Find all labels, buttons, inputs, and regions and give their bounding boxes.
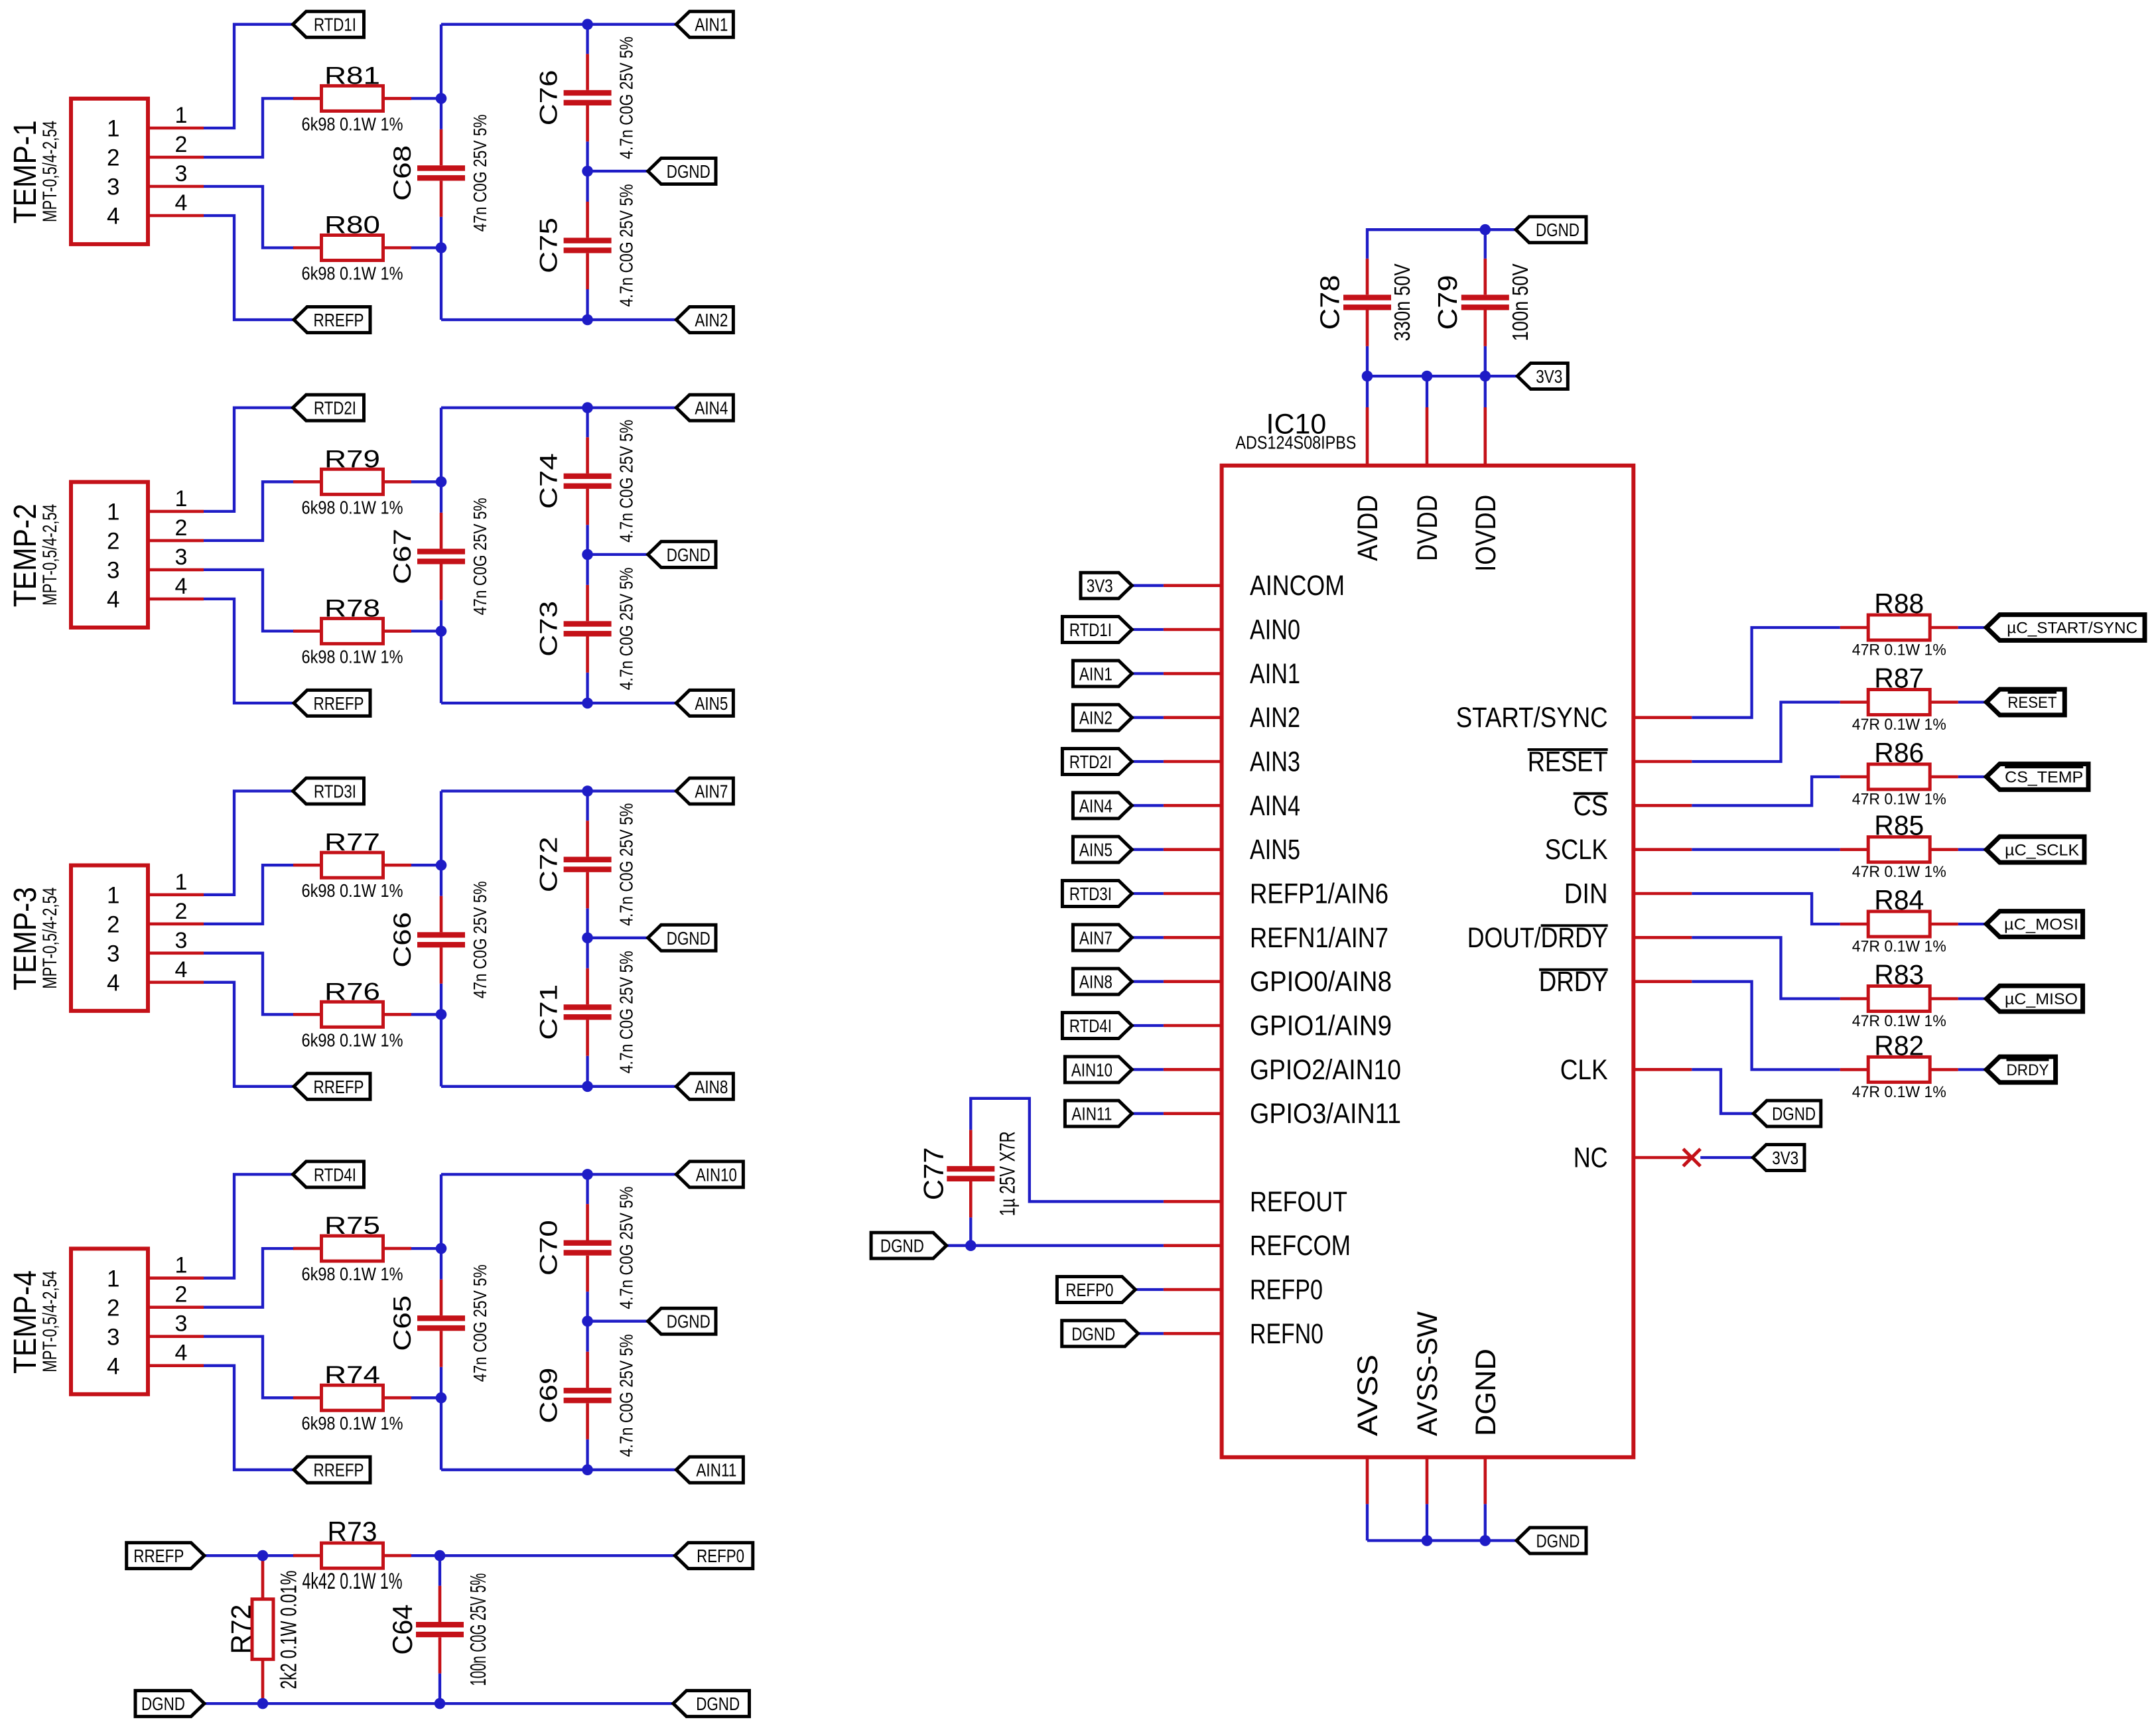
wire AIN1 to pin AIN1 (1132, 672, 1164, 675)
wire R out bottom (411, 1396, 441, 1399)
svg-text:C70: C70 (535, 1220, 563, 1276)
svg-text:CLK: CLK (1560, 1055, 1608, 1086)
power flag 3V3 (1753, 1144, 1804, 1170)
wire pin4 to RREFP flag (204, 599, 294, 703)
wire node column top (440, 1174, 442, 1248)
svg-text:C64: C64 (387, 1605, 418, 1655)
wire pin2 to R (204, 482, 294, 541)
svg-text:TEMP-4: TEMP-4 (8, 1270, 43, 1374)
svg-text:47R 0.1W 1%: 47R 0.1W 1% (1852, 791, 1946, 809)
svg-text:C68: C68 (389, 145, 416, 201)
IC10 pin AIN5 stub (1164, 848, 1222, 851)
svg-text:DRDY: DRDY (1539, 966, 1608, 998)
net flag AIN10 (676, 1162, 743, 1187)
wire DGND bus to flag (1485, 228, 1516, 231)
svg-text:R86: R86 (1874, 737, 1924, 768)
wire cap column bottom (586, 673, 588, 703)
wire DGND row (588, 1320, 648, 1323)
wire R out bottom (411, 246, 441, 249)
IC10 pin AINCOM stub (1164, 584, 1222, 587)
TEMP-1 pin 3 stub (148, 185, 204, 188)
svg-text:2: 2 (175, 899, 188, 924)
svg-text:3: 3 (107, 558, 119, 584)
ground flag DGND (673, 1691, 750, 1717)
svg-text:DOUT/DRDY: DOUT/DRDY (1467, 923, 1608, 954)
junction (1480, 1535, 1491, 1546)
capacitor C75 (564, 202, 612, 289)
svg-text:DGND: DGND (667, 161, 710, 182)
svg-text:AIN8: AIN8 (695, 1077, 728, 1097)
net flag RTD2I (293, 395, 364, 421)
capacitor C72 (564, 821, 612, 908)
svg-text:47R 0.1W 1%: 47R 0.1W 1% (1852, 716, 1946, 734)
svg-text:C65: C65 (389, 1296, 416, 1351)
wire RTD3I to pin REFP1/AIN6 (1132, 892, 1164, 895)
svg-text:4k42 0.1W 1%: 4k42 0.1W 1% (303, 1569, 403, 1594)
svg-text:AVDD: AVDD (1353, 495, 1384, 561)
wire node column top (440, 25, 442, 99)
svg-text:4: 4 (175, 1341, 188, 1366)
svg-text:3: 3 (107, 174, 119, 200)
wire pin to R83 (1692, 937, 1840, 998)
svg-text:4.7n C0G 25V 5%: 4.7n C0G 25V 5% (616, 36, 637, 159)
wire cap column bottom (586, 1439, 588, 1470)
junction (582, 1315, 593, 1327)
svg-text:6k98 0.1W 1%: 6k98 0.1W 1% (302, 113, 403, 134)
wire C64 top (438, 1556, 441, 1586)
wire R88 to flag µC_START/SYNC (1958, 626, 1987, 629)
svg-text:6k98 0.1W 1%: 6k98 0.1W 1% (302, 1413, 403, 1433)
svg-text:AIN7: AIN7 (1079, 927, 1112, 948)
IC10 pin DVDD stub (1426, 407, 1429, 466)
wire cap column below DGND (586, 1321, 588, 1352)
svg-text:6k98 0.1W 1%: 6k98 0.1W 1% (302, 880, 403, 901)
junction (582, 1464, 593, 1475)
svg-text:6k98 0.1W 1%: 6k98 0.1W 1% (302, 263, 403, 284)
svg-text:RTD4I: RTD4I (314, 1164, 356, 1185)
svg-text:3: 3 (175, 928, 188, 953)
wire bottom DGND bus (1367, 1539, 1516, 1542)
IC10 pin GPIO3/AIN11 stub (1164, 1112, 1222, 1115)
net flag RREFP (294, 1457, 370, 1483)
junction (582, 314, 593, 326)
net flag REFP0 (1057, 1276, 1135, 1302)
ground flag DGND (871, 1232, 947, 1258)
junction (582, 19, 593, 30)
wire node column top (440, 408, 442, 482)
net flag CS_TEMP (1986, 764, 2088, 790)
svg-text:AIN4: AIN4 (695, 398, 728, 419)
svg-text:AIN5: AIN5 (1079, 840, 1112, 860)
svg-text:AIN2: AIN2 (1079, 708, 1112, 728)
svg-text:MPT-0,5/4-2,54: MPT-0,5/4-2,54 (39, 1271, 61, 1372)
wire DGND row (588, 553, 648, 556)
svg-text:REFP0: REFP0 (1250, 1275, 1323, 1306)
wire node column mid lower (440, 1367, 442, 1398)
wire pin4 to RREFP flag (204, 216, 294, 320)
wire AIN7 to pin REFN1/AIN7 (1132, 936, 1164, 939)
net flag DRDY (1986, 1057, 2055, 1083)
wire node column mid upper (440, 482, 442, 513)
power flag 3V3 (1517, 364, 1568, 389)
TEMP-1 pin 1 stub (148, 127, 204, 130)
wire C79 top (1484, 230, 1487, 259)
svg-text:47n C0G 25V 5%: 47n C0G 25V 5% (470, 114, 490, 232)
wire R73 to REFP0 (411, 1554, 675, 1557)
wire 3V3 bus (1367, 375, 1517, 377)
resistor R83 (1840, 986, 1958, 1012)
svg-text:AINCOM: AINCOM (1250, 570, 1345, 602)
wire C77 bottom to DGND row (969, 1217, 972, 1245)
net flag RTD2I (1062, 749, 1132, 775)
net flag AIN8 (1073, 968, 1132, 994)
svg-text:100n 50V: 100n 50V (1508, 263, 1532, 341)
TEMP-4 pin 2 stub (148, 1305, 204, 1309)
svg-text:3V3: 3V3 (1087, 576, 1113, 596)
svg-text:3V3: 3V3 (1772, 1148, 1798, 1168)
wire node column bottom (440, 1014, 442, 1087)
svg-text:3: 3 (175, 545, 188, 570)
junction (1422, 1535, 1433, 1546)
wire DGND bus bottom (204, 1702, 673, 1705)
net flag REFP0 (675, 1543, 752, 1569)
resistor R82 (1840, 1057, 1958, 1082)
svg-text:1: 1 (107, 500, 119, 525)
svg-text:AIN8: AIN8 (1079, 972, 1112, 992)
svg-text:RREFP: RREFP (314, 1460, 364, 1481)
svg-text:1: 1 (175, 870, 188, 895)
wire pin1 to RTD flag (204, 25, 293, 128)
svg-text:C72: C72 (535, 836, 563, 892)
resistor R88 (1840, 615, 1958, 640)
capacitor C64 (416, 1586, 464, 1674)
svg-text:DGND: DGND (667, 1311, 710, 1332)
wire cap column below DGND (586, 171, 588, 202)
wire DGND flag to REFN0 pin (1138, 1332, 1164, 1335)
resistor R87 (1840, 690, 1958, 715)
wire AIN11 to pin GPIO3/AIN11 (1132, 1112, 1164, 1115)
IC10 pin REFP0 stub (1164, 1288, 1222, 1292)
svg-text:DIN: DIN (1564, 879, 1608, 910)
svg-text:REFP0: REFP0 (697, 1546, 744, 1566)
svg-text:DGND: DGND (696, 1694, 740, 1714)
wire C79 bottom (1484, 346, 1487, 376)
IC10 pin SCLK stub (1633, 848, 1692, 851)
svg-text:C78: C78 (1314, 275, 1345, 330)
ground flag DGND (1516, 217, 1586, 243)
wire RTD4I to pin GPIO1/AIN9 (1132, 1024, 1164, 1027)
wire node column mid lower (440, 984, 442, 1015)
capacitor C74 (564, 437, 612, 525)
TEMP-1 pin 4 stub (148, 214, 204, 218)
wire SCLK to R85 (1692, 848, 1840, 851)
resistor R72 (252, 1556, 273, 1703)
svg-text:AIN1: AIN1 (695, 15, 728, 35)
svg-text:1: 1 (175, 103, 188, 128)
svg-text:2: 2 (175, 132, 188, 157)
svg-text:C76: C76 (535, 70, 563, 125)
svg-text:R78: R78 (324, 594, 380, 622)
junction (257, 1550, 269, 1562)
IC10 pin DGND stub (1484, 1457, 1487, 1504)
junction (436, 1392, 447, 1404)
svg-text:C75: C75 (535, 218, 563, 273)
wire AIN10 to pin GPIO2/AIN10 (1132, 1068, 1164, 1071)
TEMP-2 pin 1 stub (148, 510, 204, 513)
svg-text:R73: R73 (328, 1516, 377, 1547)
svg-text:C66: C66 (389, 912, 416, 968)
ground flag DGND (135, 1691, 204, 1717)
junction (1362, 371, 1373, 382)
wire cap column top (586, 25, 588, 54)
svg-text:4: 4 (107, 204, 119, 230)
wire R84 to flag µC_MOSI (1958, 923, 1987, 925)
svg-text:R74: R74 (324, 1361, 380, 1388)
wire top AIN row (441, 23, 676, 26)
net flag RTD3I (293, 778, 364, 804)
ground flag DGND (648, 1308, 716, 1334)
IC10 pin AVDD stub (1366, 407, 1369, 466)
net flag AIN11 (676, 1457, 743, 1483)
net flag RTD4I (293, 1162, 364, 1187)
wire bottom AIN row (441, 318, 676, 321)
IC10 pin REFCOM stub (1164, 1244, 1222, 1247)
svg-text:IOVDD: IOVDD (1471, 495, 1502, 572)
IC10 pin AIN4 stub (1164, 804, 1222, 807)
svg-text:100n C0G 25V 5%: 100n C0G 25V 5% (466, 1573, 490, 1686)
net flag RTD3I (1062, 881, 1132, 907)
wire bottom AIN row (441, 1085, 676, 1088)
ground flag DGND (1753, 1100, 1821, 1126)
IC10 pin AIN1 stub (1164, 672, 1222, 675)
TEMP-3 pin 4 stub (148, 981, 204, 984)
svg-text:AIN2: AIN2 (695, 310, 728, 330)
svg-text:GPIO2/AIN10: GPIO2/AIN10 (1250, 1055, 1401, 1086)
svg-text:1: 1 (107, 1266, 119, 1292)
TEMP-4 pin 1 stub (148, 1276, 204, 1280)
net flag AIN7 (1073, 925, 1132, 951)
svg-text:ADS124S08IPBS: ADS124S08IPBS (1235, 432, 1356, 452)
svg-text:47R 0.1W 1%: 47R 0.1W 1% (1852, 641, 1946, 659)
wire R out top (411, 480, 441, 483)
net flag µC_MOSI (1986, 911, 2082, 937)
svg-text:DGND: DGND (667, 928, 710, 949)
overline DRDY part of DOUT/DRDY (1541, 924, 1608, 927)
resistor R85 (1840, 837, 1958, 862)
wire AVSS-SW to DGND bus (1426, 1504, 1428, 1540)
no-connect X on NC (1683, 1149, 1700, 1166)
svg-text:MPT-0,5/4-2,54: MPT-0,5/4-2,54 (39, 504, 61, 606)
svg-text:RESET: RESET (1528, 747, 1608, 778)
svg-text:AIN5: AIN5 (695, 693, 728, 714)
wire AIN4 to pin AIN4 (1132, 804, 1164, 807)
capacitor C78 (1343, 259, 1391, 346)
svg-text:AIN1: AIN1 (1250, 659, 1300, 690)
svg-text:C69: C69 (535, 1368, 563, 1424)
svg-text:47n C0G 25V 5%: 47n C0G 25V 5% (470, 881, 490, 998)
svg-text:RREFP: RREFP (314, 310, 364, 330)
wire pin to R87 (1692, 702, 1840, 762)
wire R out top (411, 1247, 441, 1250)
junction (1422, 371, 1433, 382)
svg-text:6k98 0.1W 1%: 6k98 0.1W 1% (302, 1030, 403, 1050)
svg-text:REFCOM: REFCOM (1250, 1231, 1351, 1262)
svg-text:R88: R88 (1874, 588, 1924, 619)
svg-text:REFN0: REFN0 (1250, 1319, 1323, 1350)
wire CLK to DGND flag (1692, 1069, 1753, 1113)
svg-text:AIN10: AIN10 (696, 1164, 737, 1185)
wire node column bottom (440, 248, 442, 320)
svg-text:330n 50V: 330n 50V (1390, 263, 1414, 341)
svg-text:TEMP-1: TEMP-1 (8, 120, 43, 224)
svg-text:µC_MOSI: µC_MOSI (2004, 916, 2078, 934)
wire bottom AIN row (441, 702, 676, 704)
connector TEMP-1 (71, 99, 148, 244)
wire RTD1I to pin AIN0 (1132, 628, 1164, 631)
capacitor C70 (564, 1204, 612, 1292)
wire node column bottom (440, 631, 442, 703)
svg-text:2: 2 (107, 145, 119, 171)
junction (582, 785, 593, 797)
svg-text:RTD2I: RTD2I (314, 398, 356, 419)
svg-text:4: 4 (107, 587, 119, 613)
wire cap column top (586, 408, 588, 438)
svg-text:3: 3 (107, 1324, 119, 1350)
svg-text:AIN4: AIN4 (1250, 791, 1300, 822)
svg-text:2: 2 (107, 1295, 119, 1321)
IC10 pin NC stub (1633, 1156, 1692, 1160)
svg-text:DGND: DGND (1071, 1323, 1115, 1344)
wire NC X to 3V3 flag (1700, 1156, 1753, 1159)
junction (436, 1243, 447, 1254)
junction (582, 698, 593, 709)
svg-text:TEMP-3: TEMP-3 (8, 887, 43, 990)
svg-text:1: 1 (175, 486, 188, 511)
wire bottom AIN row (441, 1469, 676, 1471)
svg-text:4: 4 (175, 957, 188, 982)
svg-text:4: 4 (175, 574, 188, 599)
svg-text:MPT-0,5/4-2,54: MPT-0,5/4-2,54 (39, 888, 61, 989)
svg-text:4.7n C0G 25V 5%: 4.7n C0G 25V 5% (616, 567, 637, 690)
wire cap column to DGND (586, 1292, 588, 1321)
svg-text:3V3: 3V3 (1536, 366, 1562, 387)
capacitor C67 (417, 513, 465, 600)
svg-text:4: 4 (175, 190, 188, 216)
svg-text:4.7n C0G 25V 5%: 4.7n C0G 25V 5% (616, 420, 637, 543)
svg-text:AIN5: AIN5 (1250, 834, 1300, 866)
wire 3V3 bus to AVDD (1366, 376, 1369, 407)
wire node column mid upper (440, 865, 442, 896)
svg-text:47R 0.1W 1%: 47R 0.1W 1% (1852, 1083, 1946, 1101)
IC10 pin AIN3 stub (1164, 760, 1222, 764)
wire pin to R82 (1692, 982, 1840, 1070)
svg-text:DGND: DGND (880, 1236, 924, 1256)
wire cap column to DGND (586, 908, 588, 938)
resistor R77 (293, 852, 411, 878)
ground flag DGND (648, 925, 716, 951)
svg-text:R77: R77 (324, 829, 380, 856)
net flag AIN7 (676, 778, 733, 804)
svg-text:4: 4 (107, 1353, 119, 1379)
connector TEMP-2 (71, 482, 148, 628)
svg-text:REFP0: REFP0 (1065, 1280, 1113, 1300)
svg-text:R87: R87 (1874, 663, 1924, 694)
wire pin3 to R (204, 570, 294, 632)
junction (582, 1169, 593, 1180)
svg-text:1: 1 (107, 882, 119, 908)
IC10 pin REFN0 stub (1164, 1332, 1222, 1335)
svg-text:RTD4I: RTD4I (1069, 1016, 1112, 1036)
svg-text:AIN4: AIN4 (1079, 795, 1112, 816)
IC10 pin GPIO1/AIN9 stub (1164, 1024, 1222, 1028)
svg-text:C71: C71 (535, 984, 563, 1040)
wire cap column bottom (586, 1056, 588, 1087)
net flag AIN4 (676, 395, 733, 421)
wire pin1 to RTD flag (204, 1174, 293, 1278)
resistor R80 (293, 235, 411, 261)
junction (582, 933, 593, 944)
svg-text:DVDD: DVDD (1412, 495, 1444, 561)
capacitor C68 (417, 129, 465, 217)
IC10 pin AIN2 stub (1164, 716, 1222, 719)
wire cap column below DGND (586, 555, 588, 585)
IC10 pin REFP1/AIN6 stub (1164, 892, 1222, 896)
ground flag DGND (648, 541, 716, 567)
wire pin2 to R (204, 98, 294, 157)
overline DRDY (1539, 968, 1608, 971)
IC10 pin AVSS-SW stub (1426, 1457, 1429, 1504)
TEMP-3 pin 3 stub (148, 952, 204, 955)
svg-text:6k98 0.1W 1%: 6k98 0.1W 1% (302, 1264, 403, 1284)
wire AIN2 to pin AIN2 (1132, 716, 1164, 719)
wire RTD2I to pin AIN3 (1132, 760, 1164, 763)
net flag µC_SCLK (1986, 836, 2084, 862)
wire REFOUT to C77 top (971, 1099, 1164, 1202)
svg-text:4.7n C0G 25V 5%: 4.7n C0G 25V 5% (616, 803, 637, 926)
svg-text:MPT-0,5/4-2,54: MPT-0,5/4-2,54 (39, 121, 61, 222)
svg-text:2k2 0.1W 0.01%: 2k2 0.1W 0.01% (277, 1571, 302, 1690)
IC10 pin START/SYNC stub (1633, 716, 1692, 719)
svg-text:CS_TEMP: CS_TEMP (2005, 769, 2083, 787)
junction (582, 549, 593, 561)
svg-text:6k98 0.1W 1%: 6k98 0.1W 1% (302, 497, 403, 517)
connector TEMP-4 (71, 1248, 148, 1394)
wire pin to R88 (1692, 628, 1840, 718)
svg-text:47n C0G 25V 5%: 47n C0G 25V 5% (470, 498, 490, 615)
IC10 pin REFN1/AIN7 stub (1164, 936, 1222, 939)
svg-text:START/SYNC: START/SYNC (1456, 702, 1608, 734)
capacitor C66 (417, 896, 465, 984)
svg-text:AIN11: AIN11 (1071, 1104, 1112, 1124)
net flag RTD1I (293, 11, 364, 37)
svg-text:R83: R83 (1874, 959, 1924, 990)
junction (435, 1550, 446, 1562)
svg-text:REFN1/AIN7: REFN1/AIN7 (1250, 923, 1388, 954)
svg-text:1µ 25V X7R: 1µ 25V X7R (995, 1131, 1019, 1216)
wire R out bottom (411, 1013, 441, 1016)
svg-text:47R 0.1W 1%: 47R 0.1W 1% (1852, 863, 1946, 881)
svg-text:RREFP: RREFP (314, 693, 364, 714)
wire 3V3 to pin AINCOM (1132, 584, 1164, 587)
junction (1480, 224, 1491, 235)
net flag AIN8 (676, 1073, 733, 1099)
junction (1480, 371, 1491, 382)
svg-text:AIN10: AIN10 (1071, 1059, 1112, 1080)
capacitor C79 (1461, 259, 1509, 346)
net flag RESET (1986, 689, 2064, 715)
wire R87 to flag RESET (1958, 700, 1987, 703)
wire cap column below DGND (586, 938, 588, 968)
